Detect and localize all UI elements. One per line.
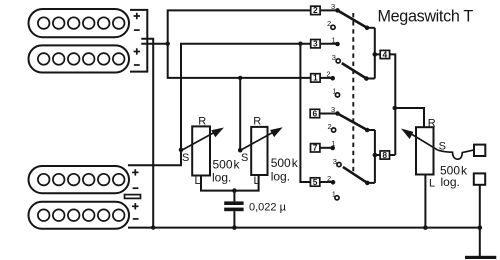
switch contact 8-1 open <box>335 196 339 200</box>
switch contact 2-3 <box>335 8 340 13</box>
svg-text:S: S <box>182 152 189 164</box>
switch mechanical link dashed <box>352 13 354 172</box>
wire S pigtail to jack <box>438 150 474 159</box>
wire pivot C to common bar <box>367 129 375 131</box>
svg-text:8: 8 <box>382 150 387 160</box>
wire box6 to contact <box>320 113 338 115</box>
wire node to capacitor <box>233 191 235 202</box>
neck humbucker coil 1 <box>29 9 130 37</box>
svg-text:3: 3 <box>333 157 337 166</box>
common bar terminal 4 <box>374 28 376 79</box>
wire box 4 to output node <box>390 54 396 155</box>
wire box3 to contact <box>320 43 337 45</box>
svg-text:R: R <box>198 116 206 128</box>
switch terminal box 2 <box>311 5 320 15</box>
node tone L junction <box>232 188 237 193</box>
tone pot P2 wiper arrow <box>241 127 283 150</box>
wire to box 4 <box>375 53 380 55</box>
svg-text:1: 1 <box>331 139 335 148</box>
neck coil2 minus terminal <box>134 64 140 66</box>
blade D <box>343 167 367 183</box>
wire P2 L to cap node <box>234 175 258 191</box>
wire pivot D to common bar <box>367 182 375 184</box>
switch terminal box 7 <box>311 143 320 153</box>
switch terminal box 4 <box>380 49 389 59</box>
neck humbucker terminal bracket <box>130 10 147 72</box>
blade B pivot <box>364 76 369 81</box>
svg-text:5: 5 <box>313 177 318 187</box>
tone pot P2 body <box>251 127 267 175</box>
neck coil1 minus terminal <box>134 29 140 31</box>
svg-text:log.: log. <box>441 175 460 189</box>
svg-text:1: 1 <box>313 73 318 83</box>
svg-text:2: 2 <box>327 174 331 183</box>
bridge coil1 plus terminal <box>132 169 138 175</box>
tone pot P1 body <box>192 126 210 175</box>
svg-text:2: 2 <box>313 5 318 15</box>
wire neck coil1 minus to ground drop <box>141 39 153 228</box>
switch contact 6-2 open <box>332 128 336 132</box>
svg-text:2: 2 <box>326 70 330 79</box>
svg-text:1: 1 <box>332 35 336 44</box>
svg-text:2: 2 <box>327 19 331 28</box>
wire P1 L to cap node <box>201 176 234 191</box>
bridge coil2 minus terminal <box>133 218 139 220</box>
switch contact 6-3 <box>335 111 340 116</box>
blade B <box>342 63 367 78</box>
switch contact 4-2 <box>330 76 335 81</box>
svg-text:S: S <box>241 152 248 164</box>
svg-text:3: 3 <box>313 39 318 49</box>
wire box1 node down to P2 S <box>239 78 241 150</box>
wire box2 to contact <box>320 9 337 11</box>
output jack hot terminal <box>474 145 485 156</box>
node bracket ground junction <box>151 225 155 229</box>
volume pot P3 wiper arrow <box>401 129 438 151</box>
node box1 wire junction <box>238 76 242 80</box>
node common bar to box 4 <box>373 52 378 57</box>
node common bar to box 8 <box>373 153 378 158</box>
neck coil2 plus terminal <box>134 48 140 54</box>
node P2 S junction <box>238 148 243 153</box>
switch contact 4-1 open <box>335 93 339 97</box>
blade C <box>338 114 368 131</box>
neck coil1 plus terminal <box>134 13 140 19</box>
ground symbol <box>465 256 496 259</box>
switch contact 8-2 <box>331 180 336 185</box>
wire capacitor to ground bus <box>233 211 235 227</box>
node bridge hot S junction <box>179 148 184 153</box>
svg-text:2: 2 <box>328 122 332 131</box>
svg-text:3: 3 <box>332 53 336 62</box>
switch contact 4-3 open <box>336 59 340 63</box>
blade D pivot <box>365 181 370 186</box>
bridge humbucker series link <box>125 195 141 199</box>
wire switch box 3 to bridge hot node <box>181 44 311 150</box>
capacitor C1 plates <box>224 201 243 211</box>
node bus jack junction <box>478 225 483 230</box>
svg-text:L: L <box>195 175 201 187</box>
wire tap to switch box 2 <box>168 10 311 43</box>
wire tap to switch box 1 <box>168 44 311 78</box>
wire box1 to contact <box>320 77 333 79</box>
wire neck hot tap <box>141 43 167 45</box>
svg-text:Megaswitch T: Megaswitch T <box>378 7 474 25</box>
svg-text:500 k: 500 k <box>271 156 299 170</box>
switch contact 2-2 open <box>331 25 335 29</box>
svg-text:4: 4 <box>383 49 388 59</box>
svg-text:6: 6 <box>313 108 318 118</box>
switch terminal box 3 <box>311 39 320 49</box>
bridge humbucker coil 1 <box>29 166 130 193</box>
svg-text:log.: log. <box>212 171 231 185</box>
wire box 8 to output node <box>390 154 396 156</box>
wire junction down to box 5 <box>300 44 310 182</box>
svg-text:3: 3 <box>331 2 335 11</box>
svg-text:0,022 µ: 0,022 µ <box>249 201 287 213</box>
ground bus <box>128 227 481 229</box>
svg-text:R: R <box>428 118 436 130</box>
node box3 wire junction <box>298 42 302 46</box>
blade C pivot <box>365 128 370 133</box>
bridge humbucker coil 2 <box>29 202 130 229</box>
svg-text:L: L <box>429 178 435 190</box>
switch terminal box 8 <box>380 150 389 160</box>
wire box7 to contact <box>320 147 333 149</box>
svg-text:log.: log. <box>271 170 290 184</box>
switch terminal box 6 <box>310 108 319 118</box>
switch contact 2-1 <box>335 42 340 47</box>
neck humbucker coil 2 <box>29 45 130 72</box>
svg-text:7: 7 <box>313 143 318 153</box>
switch contact 6-1 <box>330 146 335 151</box>
wire pivot B to common bar <box>366 78 374 80</box>
blade A <box>338 10 368 27</box>
svg-text:3: 3 <box>331 105 335 114</box>
svg-text:R: R <box>253 116 261 128</box>
node switch output junction <box>393 106 398 111</box>
wire jack sleeve to ground <box>479 185 481 256</box>
bridge humbucker bracket top and hot wire <box>128 150 181 165</box>
wire output to volume R <box>395 108 424 127</box>
wire to box 8 <box>375 154 380 156</box>
switch terminal box 5 <box>310 177 319 187</box>
node capacitor ground junction <box>232 225 237 230</box>
output jack sleeve terminal <box>474 173 485 184</box>
wire pivot A to common bar <box>367 27 375 29</box>
volume pot P3 body <box>416 127 434 174</box>
switch terminal box 1 <box>311 73 320 83</box>
bridge coil2 plus terminal <box>132 203 138 209</box>
node P3 ground junction <box>423 225 428 230</box>
switch contact 8-3 open <box>337 163 341 167</box>
tone pot P1 wiper arrow <box>182 128 224 151</box>
wire P3 L to ground bus <box>424 175 426 228</box>
wire box5 to contact <box>320 181 333 183</box>
common bar terminal 8 <box>374 130 376 183</box>
svg-text:1: 1 <box>332 87 336 96</box>
node neck tap junction <box>166 42 170 46</box>
blade A pivot <box>365 26 370 31</box>
svg-text:1: 1 <box>332 190 336 199</box>
bridge coil1 minus terminal <box>133 187 139 189</box>
